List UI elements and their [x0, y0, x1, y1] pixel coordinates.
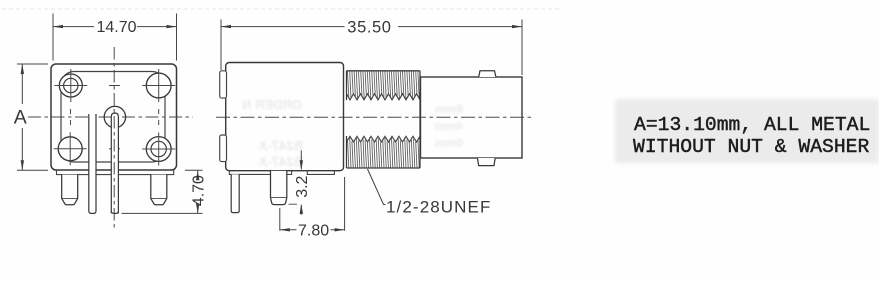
thread upper band: [347, 94, 421, 100]
dimension A (left): [17, 64, 48, 170]
svg-text:7.80: 7.80: [298, 223, 329, 240]
hole top-left (counterbored): [59, 74, 82, 97]
front view vertical centerline: [113, 47, 115, 230]
dimension 4.70 (right of front view): [122, 170, 203, 213]
svg-text:4mm: 4mm: [435, 119, 463, 133]
front view inner body outline: [61, 72, 165, 163]
side mounting tab lower: [220, 135, 227, 162]
front view horizontal centerline: [28, 116, 193, 118]
thread callout leader: [368, 169, 386, 205]
dimension 3.2: [300, 151, 302, 215]
front left pin: [89, 114, 96, 213]
svg-text:B247-X: B247-X: [259, 154, 303, 169]
side mounting tab upper: [220, 71, 227, 98]
watermark mirrored print-through text: [242, 97, 463, 169]
svg-text:14.70: 14.70: [97, 19, 137, 36]
svg-text:0mm: 0mm: [435, 136, 463, 150]
bayonet lug top: [479, 71, 496, 77]
front right leg: [151, 175, 167, 205]
side bottom step plates: [229, 171, 291, 175]
svg-text:A=13.10mm, ALL METAL: A=13.10mm, ALL METAL: [634, 114, 870, 136]
svg-text:8mm: 8mm: [435, 102, 463, 116]
dimension 35.50: [221, 20, 522, 76]
svg-text:B247-X: B247-X: [259, 138, 303, 153]
svg-text:1/2-28UNEF: 1/2-28UNEF: [386, 198, 491, 217]
front right pin: [111, 113, 118, 213]
svg-text:4.70: 4.70: [191, 175, 208, 206]
hole centerline crosshairs: [54, 69, 176, 166]
svg-text:WITHOUT NUT & WASHER: WITHOUT NUT & WASHER: [633, 136, 869, 158]
thread lower band: [347, 136, 421, 142]
side view centerline: [216, 116, 535, 118]
flange bottom step plate: [57, 170, 174, 174]
scan artifact band behind note: [615, 99, 879, 163]
hole top-right: [146, 73, 171, 98]
front left leg: [62, 175, 78, 205]
center bushing circle: [104, 106, 125, 127]
bayonet lug bottom: [477, 158, 495, 166]
hole bottom-right (counterbored): [146, 137, 171, 162]
side center pin: [271, 171, 287, 205]
dimension 7.80: [280, 177, 345, 231]
svg-text:35.50: 35.50: [347, 18, 391, 36]
thread end verticals: [347, 71, 421, 168]
svg-text:ORDER N: ORDER N: [242, 97, 302, 112]
front view flange outline: [51, 64, 177, 170]
svg-text:A: A: [14, 106, 27, 128]
side thin leg: [231, 174, 239, 212]
svg-text:3.2: 3.2: [294, 175, 311, 197]
coupling cylinder: [421, 77, 523, 158]
hole bottom-left: [58, 137, 82, 161]
faint top scan line: [2, 8, 560, 10]
dimension 14.70: [53, 14, 177, 61]
side view body: [226, 63, 344, 171]
